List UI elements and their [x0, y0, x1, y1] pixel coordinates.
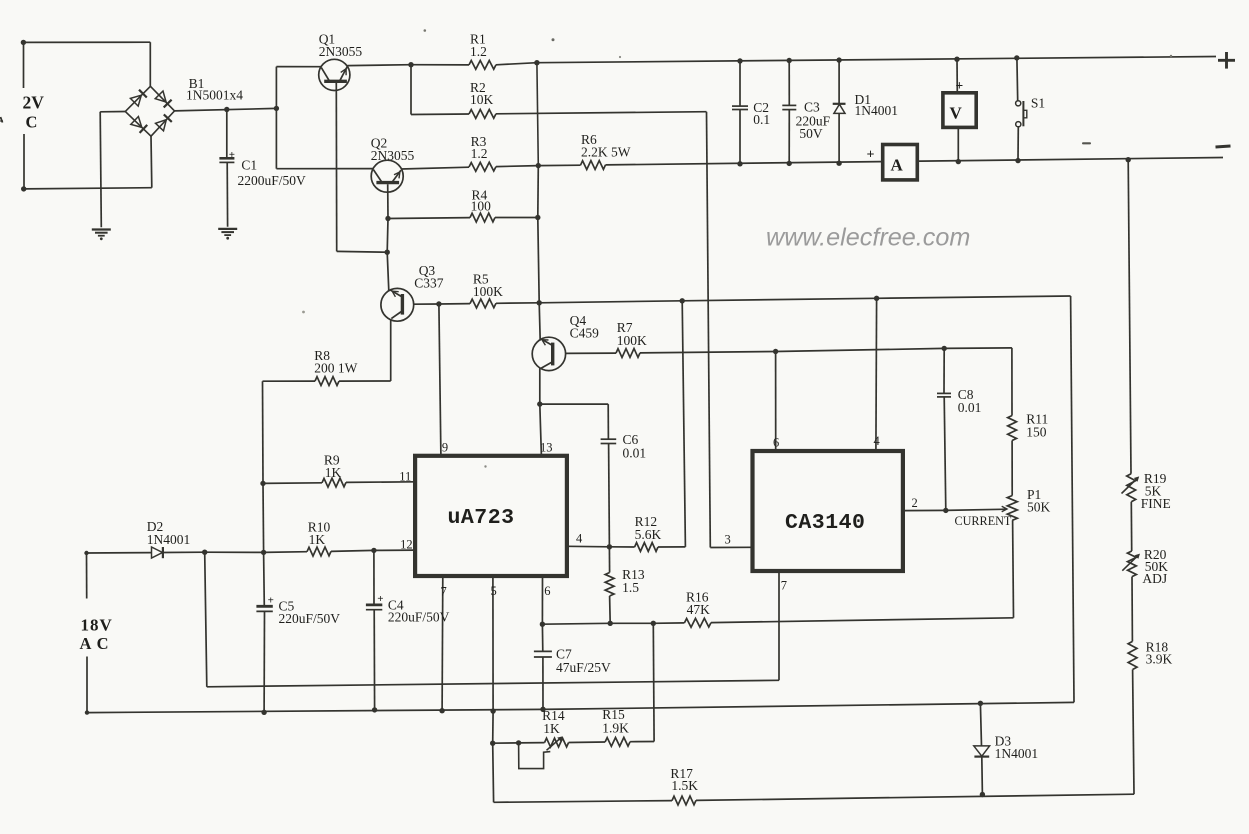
- svg-text:50K: 50K: [1027, 500, 1051, 515]
- svg-text:1.2: 1.2: [471, 146, 488, 161]
- svg-text:9: 9: [442, 441, 448, 455]
- svg-text:100: 100: [471, 199, 492, 214]
- svg-text:7: 7: [781, 579, 787, 593]
- svg-text:+: +: [867, 148, 875, 163]
- svg-text:1N4001: 1N4001: [995, 746, 1039, 761]
- svg-text:4: 4: [576, 532, 583, 546]
- svg-text:10K: 10K: [470, 92, 494, 107]
- svg-text:7: 7: [441, 585, 447, 599]
- svg-text:+: +: [268, 595, 274, 607]
- svg-text:1.5K: 1.5K: [671, 778, 698, 793]
- svg-text:uA723: uA723: [448, 506, 515, 530]
- svg-text:C: C: [26, 113, 38, 132]
- svg-text:150: 150: [1026, 425, 1047, 440]
- svg-text:1.2: 1.2: [470, 44, 487, 59]
- svg-text:1N4001: 1N4001: [855, 103, 899, 118]
- svg-text:C3: C3: [804, 100, 820, 115]
- svg-text:50V: 50V: [799, 126, 823, 141]
- svg-text:6: 6: [544, 584, 550, 598]
- svg-text:C337: C337: [414, 276, 444, 291]
- svg-text:CA3140: CA3140: [785, 511, 865, 535]
- svg-text:100K: 100K: [617, 333, 647, 348]
- svg-text:A C: A C: [80, 634, 110, 653]
- svg-text:ADJ: ADJ: [1142, 571, 1167, 586]
- svg-text:FINE: FINE: [1141, 496, 1171, 511]
- svg-text:3: 3: [725, 533, 731, 547]
- svg-text:2N3055: 2N3055: [371, 148, 415, 163]
- svg-text:V: V: [950, 104, 963, 123]
- svg-text:220uF/50V: 220uF/50V: [279, 611, 341, 626]
- svg-text:0.01: 0.01: [623, 446, 647, 461]
- svg-text:47K: 47K: [687, 602, 711, 617]
- svg-text:1.9K: 1.9K: [602, 720, 629, 735]
- svg-text:1.5: 1.5: [622, 580, 639, 595]
- svg-text:3.9K: 3.9K: [1146, 652, 1173, 667]
- svg-text:6: 6: [773, 436, 779, 450]
- svg-text:C1: C1: [241, 158, 257, 173]
- svg-text:0.1: 0.1: [753, 112, 770, 127]
- svg-text:2.2K 5W: 2.2K 5W: [581, 145, 631, 160]
- svg-text:0.01: 0.01: [958, 400, 982, 415]
- svg-text:2N3055: 2N3055: [319, 44, 363, 59]
- svg-text:S1: S1: [1031, 96, 1045, 111]
- svg-text:2: 2: [912, 496, 918, 510]
- svg-text:1N4001: 1N4001: [147, 532, 191, 547]
- svg-text:13: 13: [540, 441, 553, 455]
- svg-text:1K: 1K: [543, 721, 560, 736]
- svg-text:A: A: [891, 156, 904, 175]
- svg-text:18V: 18V: [81, 616, 113, 635]
- svg-text:2V: 2V: [23, 93, 45, 113]
- svg-text:5: 5: [491, 584, 497, 598]
- svg-text:1K: 1K: [309, 532, 326, 547]
- svg-text:12: 12: [400, 538, 413, 552]
- svg-text:100K: 100K: [473, 284, 503, 299]
- svg-text:220uF/50V: 220uF/50V: [388, 610, 450, 625]
- svg-text:CURRENT: CURRENT: [955, 514, 1012, 528]
- svg-text:www.elecfree.com: www.elecfree.com: [766, 224, 970, 252]
- svg-text:11: 11: [399, 470, 411, 484]
- svg-text:+: +: [377, 593, 383, 605]
- svg-text:+: +: [229, 149, 235, 161]
- svg-text:1K: 1K: [325, 465, 342, 480]
- svg-text:C459: C459: [570, 326, 600, 341]
- svg-text:47uF/25V: 47uF/25V: [556, 660, 611, 675]
- svg-text:4: 4: [874, 434, 881, 448]
- svg-text:200 1W: 200 1W: [314, 361, 357, 376]
- svg-text:+: +: [956, 78, 964, 93]
- svg-text:2200uF/50V: 2200uF/50V: [238, 173, 307, 188]
- svg-text:5.6K: 5.6K: [635, 527, 662, 542]
- svg-text:1N5001x4: 1N5001x4: [186, 88, 243, 103]
